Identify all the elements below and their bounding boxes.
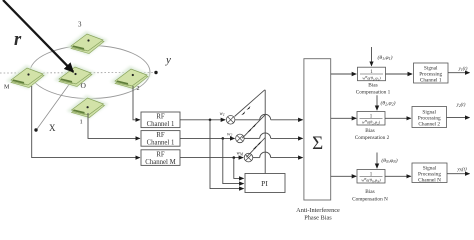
svg-text:y1(t): y1(t) — [458, 67, 468, 72]
switch blade row 2 — [242, 115, 265, 138]
svg-text:(θ2,φ2): (θ2,φ2) — [381, 100, 396, 107]
incoming signal arrow r — [3, 0, 73, 72]
wire bias N to signal processing N — [385, 175, 411, 177]
svg-text:PI: PI — [261, 179, 268, 188]
signal processing channel N box — [412, 163, 447, 184]
x axis line — [37, 79, 73, 129]
svg-text:Compensation 1: Compensation 1 — [356, 90, 391, 96]
wire row 2 hump and into sum — [244, 133, 302, 139]
PI controller box — [245, 174, 285, 193]
svg-text:3: 3 — [78, 21, 82, 29]
antenna element 1 (bottom) — [67, 95, 109, 119]
output y1 — [448, 72, 470, 74]
junction node row 2 — [222, 137, 225, 140]
control line from switch top to PI — [264, 90, 266, 174]
multiplier (mixer) 1 — [226, 116, 235, 125]
svg-text:Channel 1: Channel 1 — [147, 140, 175, 147]
switch blade row 3 — [246, 138, 265, 158]
bias compensation box N — [357, 170, 385, 184]
svg-text:RF: RF — [156, 114, 165, 121]
svg-text:RF: RF — [156, 132, 165, 139]
multiplier (mixer) 2 — [236, 134, 245, 143]
wire element M to RF channel M — [32, 86, 140, 158]
signal processing channel 2 box — [412, 107, 447, 128]
wire sum to bias compensation 2 — [331, 117, 357, 119]
svg-text:r: r — [14, 30, 22, 50]
wire RF2 to mixer 2 — [180, 137, 235, 139]
svg-text:Compensation 2: Compensation 2 — [355, 135, 390, 141]
steering input arrow 2 — [376, 95, 378, 110]
y axis end dot — [154, 71, 157, 74]
wire sum to bias compensation 3 — [331, 175, 357, 177]
output yN — [447, 173, 470, 175]
svg-text:X: X — [49, 123, 56, 133]
antenna element M (left) — [6, 65, 48, 89]
svg-text:w2: w2 — [227, 132, 232, 137]
wire sum to bias compensation 1 — [331, 73, 357, 75]
svg-text:y2(t): y2(t) — [456, 103, 466, 108]
svg-text:O: O — [81, 81, 87, 90]
wire bias 2 to signal processing 2 — [385, 117, 411, 119]
y axis dashed line — [0, 72, 154, 75]
wire row 1 hump and into sum — [235, 114, 303, 119]
svg-text:yN(t): yN(t) — [456, 168, 467, 173]
signal processing channel 1 box — [414, 63, 449, 84]
wire element 1 to RF channel 2 — [88, 113, 140, 138]
svg-text:(θN,φN): (θN,φN) — [381, 157, 397, 164]
svg-text:Channel N: Channel N — [418, 178, 441, 184]
svg-text:w1: w1 — [220, 112, 225, 117]
svg-text:Bias: Bias — [368, 83, 377, 89]
RF channel box 2 — [141, 131, 180, 147]
bias compensation box 1 — [358, 67, 386, 81]
svg-text:2: 2 — [137, 86, 140, 92]
wire bias 1 to signal processing 1 — [386, 73, 413, 75]
feedback tap row 1 to PI — [210, 120, 244, 189]
svg-text:Compensation N: Compensation N — [352, 197, 388, 203]
svg-text:M: M — [4, 85, 10, 91]
svg-text:(θ1,φ1): (θ1,φ1) — [378, 54, 393, 61]
x axis end dot — [34, 128, 37, 131]
steering input arrow 1 — [371, 47, 373, 66]
svg-text:Channel 1: Channel 1 — [420, 78, 442, 84]
switch blade row 1 — [235, 90, 265, 117]
feedback tap row 2 to PI — [223, 138, 244, 183]
svg-text:1: 1 — [80, 119, 83, 126]
junction node row 3 — [233, 156, 236, 159]
svg-text:Channel 2: Channel 2 — [418, 121, 440, 127]
wire RF1 to mixer 1 — [180, 119, 225, 121]
antenna element O (center) — [54, 64, 96, 88]
svg-text:RF: RF — [156, 151, 165, 158]
svg-text:Bias: Bias — [365, 128, 374, 134]
RF channel box M — [141, 150, 180, 166]
antenna element 2 (right) — [110, 66, 152, 90]
svg-text:wM: wM — [237, 152, 244, 157]
wire row 3 hump and into sum — [253, 152, 303, 158]
svg-text:Σ: Σ — [312, 133, 323, 154]
antenna element 3 (top) — [66, 31, 108, 55]
RF channel box 1 — [141, 112, 180, 128]
wire RF3 to mixer 3 — [180, 157, 243, 159]
svg-text:Phase Bias: Phase Bias — [304, 215, 332, 222]
wire element 2 to RF channel 1 — [133, 86, 140, 120]
output y2 — [447, 117, 470, 119]
feedback tap row 3 to PI — [234, 158, 244, 179]
svg-text:Anti-Interference: Anti-Interference — [296, 207, 340, 214]
multiplier (mixer) 3 — [244, 153, 253, 162]
ellipse of circular antenna array — [30, 46, 150, 99]
summation box — [304, 59, 331, 200]
svg-text:Channel M: Channel M — [145, 159, 175, 166]
steering input arrow N — [376, 153, 378, 169]
svg-text:Bias: Bias — [365, 189, 374, 195]
bias compensation box 2 — [357, 112, 385, 126]
svg-text:y: y — [165, 54, 171, 66]
junction node row 1 — [209, 119, 212, 122]
svg-text:Channel 1: Channel 1 — [147, 121, 175, 128]
